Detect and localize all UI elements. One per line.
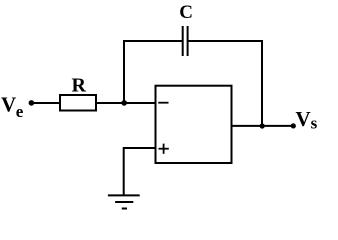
wire resistor R to inverting input node A	[96, 102, 156, 104]
svg-text:V: V	[1, 93, 16, 117]
wire capacitor C to output node B	[188, 41, 262, 126]
resistor R	[60, 95, 96, 111]
wire Ve to resistor R	[31, 102, 60, 104]
op-amp U1	[156, 86, 232, 163]
label Ve	[1, 93, 24, 121]
svg-text:s: s	[311, 114, 318, 133]
ground	[108, 195, 140, 208]
junction node A	[121, 100, 127, 106]
node Vs output terminal	[291, 123, 296, 128]
wire node A up to capacitor C	[124, 41, 182, 103]
svg-text:R: R	[72, 74, 87, 96]
node Ve input terminal	[29, 100, 35, 106]
svg-text:V: V	[296, 107, 311, 131]
wire op-amp output to Vs	[232, 125, 294, 127]
svg-text:C: C	[179, 2, 193, 23]
capacitor C	[183, 26, 188, 56]
label Vs	[296, 107, 318, 132]
wire non-inverting input to ground	[124, 148, 156, 195]
junction node B	[260, 123, 265, 128]
svg-text:e: e	[16, 102, 24, 121]
